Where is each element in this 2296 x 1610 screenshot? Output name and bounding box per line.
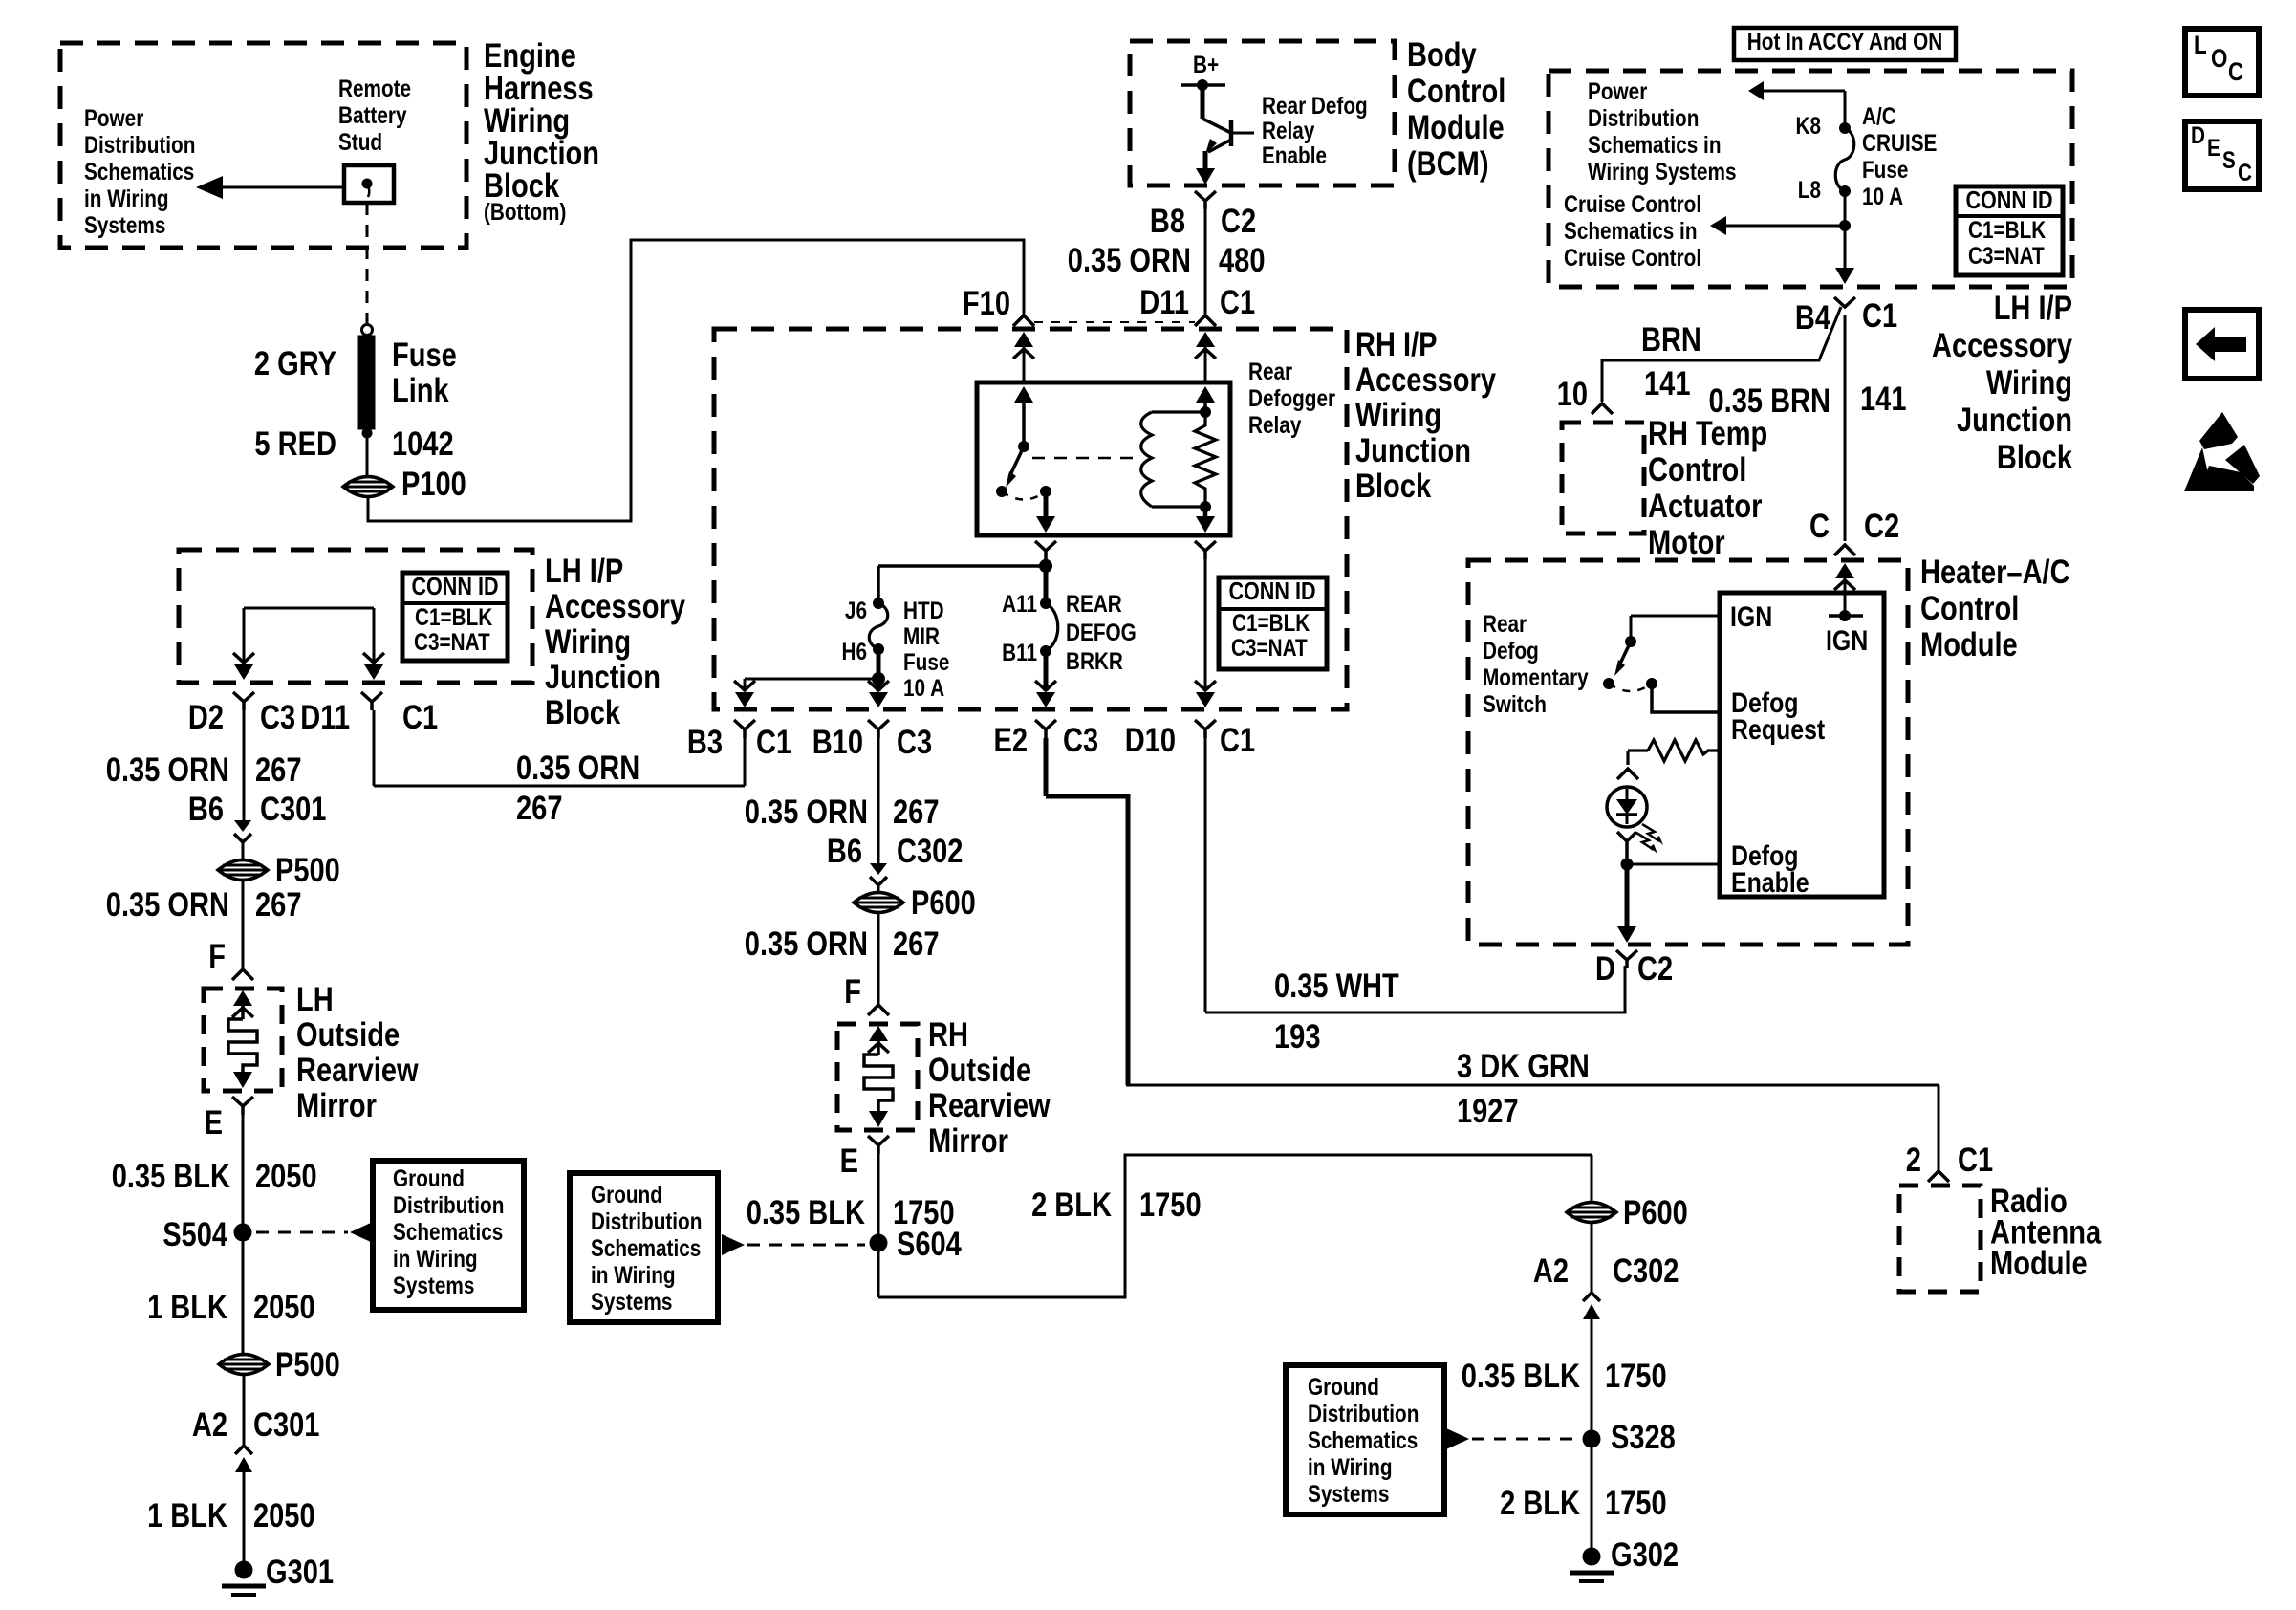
svg-text:10 A: 10 A [903,675,944,702]
relay mechanical linkage to coil (dashed) [1032,457,1137,460]
reference dashed link S604 to ground distribution [722,1234,745,1255]
svg-text:in Wiring: in Wiring [591,1262,676,1289]
reference arrow to power distribution [1762,90,1845,93]
svg-text:D11: D11 [300,699,350,736]
svg-text:E2: E2 [994,722,1029,759]
wire: B11 to E2 edge arrow [1044,651,1049,691]
relay coil [1152,410,1205,413]
svg-text:P500: P500 [275,852,340,889]
svg-text:Wiring Systems: Wiring Systems [1588,159,1737,185]
svg-text:C302: C302 [897,833,963,870]
svg-text:Systems: Systems [393,1273,474,1299]
svg-text:Power: Power [1588,78,1648,105]
icon: ESD warning [2199,412,2238,449]
svg-text:Control: Control [1407,73,1505,110]
connector Y above RH mirror [868,1005,889,1015]
svg-text:Battery: Battery [338,102,407,129]
svg-text:Systems: Systems [1308,1481,1389,1508]
module: RH Temp Control Actuator Motor (dashed box) [1562,423,1644,533]
wire: battery stud to fuse link (dashed) [366,203,369,330]
terminal: remote battery stud [344,165,394,203]
svg-text:Accessory: Accessory [1932,327,2072,364]
svg-text:0.35 ORN: 0.35 ORN [1068,242,1191,279]
svg-text:2 BLK: 2 BLK [1500,1485,1580,1522]
fuse link F (2 GRY) [362,325,373,336]
wire: P100 to F10 entry of RH I/P junction block [368,240,1024,521]
svg-text:D: D [1595,950,1615,988]
connector chevron above LED [1617,769,1638,779]
connector C302 (in-line, upward) [1583,1293,1600,1301]
svg-text:2: 2 [1906,1142,1921,1179]
svg-text:Rearview: Rearview [296,1052,419,1089]
svg-text:CRUISE: CRUISE [1862,130,1937,157]
svg-text:S: S [2222,147,2236,174]
svg-text:F: F [208,938,226,975]
svg-text:Enable: Enable [1262,142,1327,169]
svg-text:LH: LH [296,981,334,1018]
CONN ID table (top right) [1956,186,2063,275]
svg-text:C3=NAT: C3=NAT [1231,635,1308,662]
svg-text:Ground: Ground [393,1165,465,1192]
svg-text:Systems: Systems [84,212,165,239]
svg-text:D10: D10 [1125,722,1176,759]
junction block: RH I/P Accessory Wiring Junction Block (dashed outline) [714,329,1347,709]
svg-text:in Wiring: in Wiring [1308,1454,1393,1481]
svg-text:Distribution: Distribution [591,1208,702,1235]
connector Y at B4 [1834,297,1855,307]
svg-text:RH I/P: RH I/P [1355,326,1438,363]
svg-text:Accessory: Accessory [545,588,685,625]
svg-text:10: 10 [1557,376,1588,413]
svg-text:Rear: Rear [1248,359,1292,385]
svg-text:Momentary: Momentary [1483,664,1589,691]
svg-text:C1=BLK: C1=BLK [415,604,492,631]
svg-text:in Wiring: in Wiring [393,1246,478,1273]
svg-text:C2: C2 [1221,203,1256,240]
svg-text:C3: C3 [1063,722,1098,759]
svg-text:Distribution: Distribution [84,132,195,159]
svg-text:(Bottom): (Bottom) [484,199,566,226]
component: RH Outside Rearview Mirror (dashed box) [837,1024,918,1130]
connector Y below LH mirror (E) [232,1097,253,1106]
connector chevrons at C1 (F10 / D11) [1013,315,1034,326]
wire: defog enable to D/C2 [1625,864,1630,927]
wire: E2 to radio antenna (3 DK GRN 1927) [1044,738,1049,796]
svg-text:267: 267 [893,794,940,831]
mirror defog grid element (RH) [869,1026,888,1041]
icon: LOC [2185,29,2259,96]
svg-text:267: 267 [893,925,940,963]
junction block: Engine Harness Wiring Junction Block (dashed outline) [60,43,466,248]
svg-text:C: C [1809,508,1830,545]
svg-text:1750: 1750 [1139,1186,1202,1224]
svg-text:B10: B10 [812,724,863,761]
svg-text:CONN ID: CONN ID [411,572,498,600]
wire: C1 down to 0.35 ORN 267 run [373,710,376,786]
wire: C/C2 feed into module (IGN) [1834,545,1855,555]
relay coil feed from D11 [1196,386,1215,402]
relay switch output arrow [1044,491,1049,516]
relay: Rear Defogger Relay (solid box) [977,382,1230,535]
svg-text:Block: Block [1997,439,2073,476]
connector P100 [343,477,393,497]
svg-text:Mirror: Mirror [928,1122,1008,1160]
svg-text:S604: S604 [897,1226,962,1263]
svg-text:C301: C301 [260,791,326,828]
wire: L8 down to cruise branch [1844,191,1847,226]
wire entry arrows at F10 and D11 [1014,332,1033,347]
connector chevron below LED [1617,832,1636,841]
svg-text:267: 267 [516,790,563,827]
svg-text:C1: C1 [1220,284,1255,321]
wire: P500 to LH mirror (F) [242,881,245,969]
svg-text:C2: C2 [1864,508,1899,545]
reference dashed link S504 to ground distribution [256,1231,348,1234]
wire: B4 to C (0.35 BRN 141) [1844,315,1847,541]
svg-text:C3=NAT: C3=NAT [414,629,490,656]
wire: D2 down (0.35 ORN 267) [243,710,246,820]
component: LH Outside Rearview Mirror (dashed box) [204,989,282,1091]
svg-text:Schematics: Schematics [1308,1427,1418,1454]
splice S328 [1583,1430,1601,1448]
svg-text:G302: G302 [1611,1536,1679,1574]
wire: P600 to C302 [1591,1223,1593,1293]
svg-text:Module: Module [1920,626,2018,664]
svg-text:C3: C3 [260,699,295,736]
svg-text:J6: J6 [845,598,867,624]
svg-text:O: O [2211,44,2227,73]
splice S504 [234,1224,252,1242]
relay switch linkage arc (dashed) [1002,491,1046,500]
wire: P500 to C301 [243,1375,246,1446]
svg-text:RH: RH [928,1016,968,1054]
electronic module core (solid box) [1720,593,1884,897]
connector P600 (ground side) [1591,1155,1593,1202]
svg-text:A/C: A/C [1862,103,1896,130]
relay coil/resistor bottom tie [1152,505,1205,508]
svg-text:Fuse: Fuse [903,649,949,676]
svg-text:Block: Block [545,694,621,731]
svg-text:B+: B+ [1193,52,1219,78]
svg-text:C1: C1 [402,699,438,736]
svg-text:Stud: Stud [338,129,382,156]
svg-text:B4: B4 [1795,299,1831,337]
svg-text:RH Temp: RH Temp [1648,415,1767,452]
svg-text:F10: F10 [963,285,1010,322]
relay switch blade [1009,446,1024,477]
connector C301 (in-line) [234,820,251,832]
wire: node to HTD MIR fuse (J6) [878,564,1046,568]
svg-text:Relay: Relay [1262,118,1314,144]
svg-text:267: 267 [255,751,302,789]
svg-text:1927: 1927 [1457,1093,1519,1130]
svg-text:0.35 ORN: 0.35 ORN [516,750,639,787]
svg-text:1750: 1750 [1605,1358,1667,1395]
switch: rear defog momentary [1631,615,1720,618]
wire: defog enable node [1621,859,1634,871]
svg-text:193: 193 [1274,1018,1321,1055]
wire: mirror ground 0.35 BLK 2050 [242,1115,245,1353]
svg-text:2 GRY: 2 GRY [254,345,336,382]
connector C301 (in-line, upward) [235,1446,252,1454]
svg-text:CONN ID: CONN ID [1228,577,1315,605]
note box: Ground Distribution Schematics in Wiring Systems (right) [1286,1365,1444,1514]
svg-text:P500: P500 [275,1346,340,1383]
svg-text:B3: B3 [687,724,723,761]
svg-text:141: 141 [1644,365,1691,402]
svg-text:B6: B6 [188,791,224,828]
svg-text:LH I/P: LH I/P [1994,290,2072,327]
svg-text:1042: 1042 [392,425,454,463]
svg-text:0.35 BLK: 0.35 BLK [747,1194,865,1231]
svg-text:L8: L8 [1798,177,1821,204]
wire: S604 to 2 BLK 1750 run [878,1155,1592,1297]
LED light arrows [1642,824,1659,841]
svg-text:Mirror: Mirror [296,1087,377,1124]
wire: B10 down 0.35 ORN 267 [877,738,880,863]
svg-text:Schematics: Schematics [591,1235,701,1262]
connector chevron at RH Temp actuator [1592,403,1613,414]
wire arrows into block bottom edge at B3 and B10 [735,692,754,707]
note box: Ground Distribution Schematics in Wiring Systems (left) [373,1161,524,1310]
LED: rear defog indicator [1607,787,1647,827]
box: Hot In ACCY And ON [1734,28,1956,60]
svg-text:E: E [840,1142,858,1180]
wire: B8 to D11 (0.35 ORN 480) [1204,209,1207,315]
svg-text:Relay: Relay [1248,412,1301,439]
svg-text:Wiring: Wiring [1986,364,2072,402]
svg-text:2050: 2050 [253,1497,315,1534]
svg-text:1 BLK: 1 BLK [147,1497,227,1534]
svg-text:A2: A2 [1533,1252,1569,1290]
connector C302 (in-line) [870,863,887,875]
svg-text:B8: B8 [1150,203,1185,240]
connector Y below BCM [1195,191,1216,201]
fuse: A/C CRUISE Fuse 10 A (K8-L8) [1839,122,1851,134]
svg-text:Wiring: Wiring [1355,397,1441,434]
wire: relay coil to D10 edge arrow [1204,553,1207,691]
relay switch contacts [996,486,1007,497]
reference dashed link S328 to ground distribution [1446,1428,1469,1449]
svg-text:Ground: Ground [591,1182,662,1208]
svg-text:P100: P100 [401,466,466,503]
svg-text:CONN ID: CONN ID [1965,185,2052,214]
svg-text:E: E [2207,135,2220,162]
svg-text:2 BLK: 2 BLK [1031,1186,1112,1224]
svg-text:HTD: HTD [903,598,944,624]
ground G301 [235,1561,253,1579]
svg-text:5 RED: 5 RED [254,425,336,463]
junction block: LH I/P Accessory Wiring (top right, dashed outline) [1549,71,2072,287]
svg-text:F: F [844,973,861,1011]
connector Ys below RH I/P block [734,720,755,729]
svg-text:C1=BLK: C1=BLK [1232,610,1310,637]
svg-text:Control: Control [1648,451,1746,489]
svg-text:Heater–A/C: Heater–A/C [1920,554,2070,591]
svg-text:Junction: Junction [545,659,661,696]
svg-text:0.35 ORN: 0.35 ORN [106,886,229,924]
svg-text:Junction: Junction [1957,402,2072,439]
svg-text:Fuse: Fuse [1862,157,1908,184]
svg-text:Defogger: Defogger [1248,385,1335,412]
svg-text:E: E [205,1104,223,1142]
connector Ys below LH I/P block [233,692,254,702]
svg-text:S328: S328 [1611,1419,1676,1456]
transistor: Rear Defog Relay Enable driver (NPN) [1201,85,1205,119]
svg-text:Block: Block [1355,468,1432,505]
svg-text:K8: K8 [1796,113,1822,140]
svg-text:Request: Request [1731,714,1825,746]
svg-text:A2: A2 [192,1406,227,1444]
wire: C301 to G301 [243,1472,246,1564]
svg-text:P600: P600 [911,884,976,922]
relay coil output arrow to D10 [1203,507,1208,516]
svg-text:267: 267 [255,886,302,924]
svg-text:Outside: Outside [296,1016,400,1054]
svg-text:Cruise Control: Cruise Control [1564,191,1701,218]
svg-text:C1: C1 [1220,722,1255,759]
relay switch common from F10 [1014,386,1033,402]
svg-text:0.35 BLK: 0.35 BLK [1462,1358,1580,1395]
reference arrow to cruise control schematics [1724,225,1845,228]
svg-text:0.35 BLK: 0.35 BLK [112,1158,230,1195]
svg-text:Systems: Systems [591,1289,672,1316]
note box: Ground Distribution Schematics in Wiring Systems (middle) [570,1173,718,1322]
mirror defog grid element (LH) [233,990,252,1006]
svg-text:S504: S504 [162,1216,227,1253]
svg-text:BRKR: BRKR [1066,648,1123,675]
connector dashed link C1 [1034,321,1195,323]
CONN ID table (RH I/P) [1219,577,1327,669]
svg-text:Actuator: Actuator [1648,488,1763,525]
svg-text:Rear: Rear [1483,611,1527,638]
connector Y below heater module (D) [1616,950,1637,960]
wire: internal bus D2-C1 [244,607,374,610]
svg-text:Schematics in: Schematics in [1588,132,1722,159]
connector P600 [854,893,903,913]
svg-text:Link: Link [392,372,449,409]
svg-text:C1=BLK: C1=BLK [1968,217,2046,244]
module: Body Control Module (BCM) dashed outline [1130,41,1395,185]
wire: C302 to P600 [877,885,880,892]
relay resistor (parallel) [1195,412,1216,507]
svg-text:G301: G301 [266,1554,334,1591]
svg-text:Schematics: Schematics [84,159,194,185]
svg-text:3 DK GRN: 3 DK GRN [1457,1048,1590,1085]
svg-text:IGN: IGN [1730,601,1772,633]
connector at radio antenna [1928,1171,1949,1182]
svg-text:Fuse: Fuse [392,337,457,374]
svg-text:B11: B11 [1002,640,1037,666]
svg-text:Rearview: Rearview [928,1087,1051,1124]
svg-text:C3=NAT: C3=NAT [1968,243,2045,270]
splice S604 [870,1234,888,1252]
svg-text:Wiring: Wiring [545,623,631,661]
svg-text:BRN: BRN [1641,321,1701,359]
ground G302 [1583,1548,1601,1566]
resistor: defog indicator [1628,749,1648,751]
svg-text:0.35 ORN: 0.35 ORN [745,794,868,831]
node B+ bar [1181,83,1225,87]
connector Y above LH mirror [232,969,253,980]
svg-text:Distribution: Distribution [1588,105,1699,132]
svg-text:IGN: IGN [1826,625,1868,657]
svg-text:0.35 ORN: 0.35 ORN [106,751,229,789]
svg-text:Motor: Motor [1648,524,1725,561]
svg-text:C: C [2228,57,2243,86]
wire: C301 to P500 [242,842,245,859]
svg-text:Rear Defog: Rear Defog [1262,93,1368,120]
svg-text:C1: C1 [1958,1142,1993,1179]
svg-text:D: D [2191,122,2205,149]
icon: DESC [2185,121,2259,189]
svg-text:Distribution: Distribution [1308,1401,1419,1427]
svg-text:LH I/P: LH I/P [545,553,623,590]
wire: 0.35 ORN 267 to B3 [374,785,745,788]
svg-text:DEFOG: DEFOG [1066,620,1137,646]
svg-text:0.35 WHT: 0.35 WHT [1274,968,1399,1005]
wire: relay switch output node [1044,559,1049,566]
wire: H6 down with branch to B3 [877,649,881,681]
svg-text:Cruise Control: Cruise Control [1564,245,1701,272]
svg-text:C3: C3 [897,724,932,761]
svg-text:D11: D11 [1139,284,1189,321]
connector P500 (ground side) [219,1355,269,1375]
connector Y pair below relay [1035,541,1056,551]
svg-text:10 A: 10 A [1862,184,1903,210]
module: Heater-A/C Control Module (dashed outline) [1468,560,1908,945]
svg-text:MIR: MIR [903,623,940,650]
svg-text:Outside: Outside [928,1052,1031,1089]
wire: fuse link to P100 [366,433,369,476]
svg-text:C1: C1 [756,724,791,761]
svg-text:1 BLK: 1 BLK [147,1289,227,1326]
svg-text:REAR: REAR [1066,591,1122,618]
svg-text:0.35 ORN: 0.35 ORN [745,925,868,963]
svg-text:Module: Module [1407,109,1505,146]
svg-text:1750: 1750 [1605,1485,1667,1522]
svg-text:Ground: Ground [1308,1374,1379,1401]
icon: back arrow [2185,310,2259,379]
wire: mirror ground 0.35 BLK 1750 [877,1154,880,1297]
svg-text:H6: H6 [842,639,868,665]
svg-text:A11: A11 [1002,591,1037,618]
svg-text:C2: C2 [1637,950,1673,988]
svg-text:P600: P600 [1623,1194,1688,1231]
svg-text:141: 141 [1860,381,1907,418]
wire: P600 to RH mirror (F) [877,913,880,1005]
fuse: HTD MIR Fuse 10 A (J6-H6) [873,598,884,609]
module: Radio Antenna Module (dashed box) [1899,1186,1981,1292]
wire: BCM output to B8 (arrow at module edge) [1196,168,1215,185]
svg-text:C: C [2238,160,2252,186]
svg-text:Hot In ACCY And ON: Hot In ACCY And ON [1747,29,1942,55]
breaker: REAR DEFOG BRKR (A11-B11) [1044,566,1049,601]
svg-text:Power: Power [84,105,144,132]
svg-text:Control: Control [1920,590,2019,627]
svg-text:Schematics in: Schematics in [1564,218,1698,245]
wire: C302 to G302 [1591,1319,1593,1549]
svg-text:C1: C1 [1862,297,1897,335]
svg-text:Enable: Enable [1731,867,1809,899]
svg-text:Module: Module [1990,1245,2088,1282]
svg-text:Body: Body [1407,36,1477,74]
svg-text:(BCM): (BCM) [1407,145,1489,183]
svg-text:2050: 2050 [255,1158,317,1195]
wire: to B4 with edge arrow [1844,226,1847,268]
svg-text:D2: D2 [188,699,224,736]
svg-text:2050: 2050 [253,1289,315,1326]
